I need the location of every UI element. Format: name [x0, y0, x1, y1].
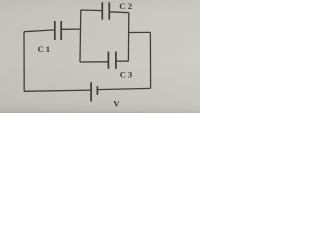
capacitor C1 plate 1 — [54, 21, 56, 40]
svg-text:C1: C1 — [38, 44, 50, 54]
capacitor C2 plate 2 — [108, 2, 110, 19]
capacitor C3 plate 2 — [115, 52, 117, 69]
wire: left vertical rail — [23, 32, 25, 92]
wire: bottom left segment from battery — [24, 90, 91, 91]
wire: mid-right connector to outer right rail — [129, 31, 151, 33]
capacitor C3 plate 1 — [107, 52, 109, 69]
wire: C3 left lead (bottom of inner loop) — [80, 61, 108, 63]
capacitor C1 plate 2 — [60, 21, 62, 40]
wire: C1 left lead from top-left corner — [24, 30, 55, 32]
wire: middle vertical joining C2 and C3 right leads — [127, 13, 129, 62]
capacitor C2 plate 1 — [101, 2, 103, 19]
battery V short plate (negative terminal) — [96, 86, 98, 95]
wire: bottom right segment to battery — [97, 88, 150, 89]
battery V long plate (positive terminal) — [90, 82, 92, 101]
wire: left junction vertical (node joining C1, C2 branch, C3 loop) — [79, 10, 82, 62]
wire: C2 right lead — [109, 11, 129, 14]
wire: right vertical rail — [149, 32, 151, 88]
wire: C1 right lead — [61, 28, 80, 30]
paper background — [0, 0, 200, 113]
wire: C3 right lead — [116, 60, 128, 62]
wire: C2 left lead — [81, 9, 103, 12]
svg-text:V: V — [113, 99, 120, 109]
